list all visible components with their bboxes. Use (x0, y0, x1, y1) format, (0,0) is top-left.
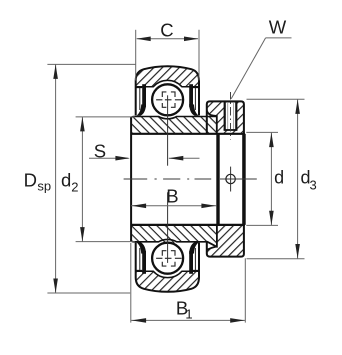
outer ring top section (136, 66, 199, 115)
ball bottom (152, 243, 183, 274)
bore silhouette line top (131, 133, 245, 135)
svg-text:C: C (160, 19, 173, 40)
outer ring bottom section (136, 243, 199, 292)
svg-text:1: 1 (185, 306, 192, 321)
inner ring bottom section (131, 225, 220, 246)
seal bottom right (189, 242, 199, 274)
collar right face thick edge (242, 134, 246, 225)
lubrication hole circle (226, 167, 235, 192)
dimension Dsp (47, 64, 135, 293)
dimension B1 (131, 243, 246, 323)
dimension C (136, 30, 199, 81)
svg-text:B: B (166, 186, 178, 207)
inner ring top section (131, 117, 220, 134)
ball top centre line vertical (167, 95, 169, 165)
svg-text:2: 2 (71, 180, 78, 195)
inner ring left face line (130, 117, 132, 242)
seal top left (136, 84, 146, 116)
seal top right (189, 84, 199, 116)
svg-text:3: 3 (310, 177, 317, 192)
svg-text:d: d (61, 170, 71, 191)
collar locking bore (W slot) (224, 102, 238, 131)
svg-text:W: W (269, 17, 287, 38)
svg-text:D: D (24, 170, 37, 191)
ball bottom centre mark (156, 251, 182, 266)
ball top (152, 84, 183, 115)
inner ring right face thick edge (216, 134, 219, 225)
eccentric locking collar top section (207, 101, 244, 133)
ball bottom centre line vertical (167, 192, 169, 263)
svg-text:sp: sp (37, 179, 51, 194)
collar recess boundary (bottom fillet) (207, 225, 217, 250)
svg-text:d: d (274, 168, 284, 188)
ball top centre mark (156, 92, 182, 107)
dimension d (246, 132, 278, 225)
eccentric locking collar bottom section (207, 225, 244, 257)
seal bottom left (136, 242, 146, 274)
dimension d2 (76, 117, 135, 242)
collar slot centre line (230, 92, 232, 140)
main axis centre line (124, 178, 257, 180)
inner ring eccentric end silhouette (slope) (207, 242, 216, 247)
dimension d3 (247, 99, 305, 259)
bore silhouette line bottom (131, 224, 245, 226)
